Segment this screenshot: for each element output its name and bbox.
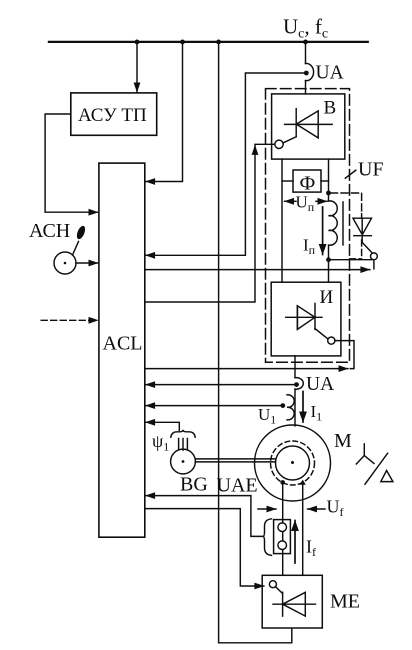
thyristor B cathode bar bbox=[295, 109, 297, 137]
node bus-UA1 bbox=[303, 40, 308, 45]
node bus-drop3 bbox=[216, 40, 221, 45]
svg-text:M: M bbox=[334, 430, 352, 452]
svg-text:ψ1: ψ1 bbox=[152, 431, 169, 454]
svg-text:UA: UA bbox=[316, 63, 344, 84]
wire ACL to I gate bbox=[145, 368, 348, 370]
bracket over BG winding bbox=[171, 430, 195, 437]
wire F right bbox=[321, 180, 329, 182]
wire ACL to B gate bbox=[145, 145, 255, 302]
node bus-ASUTP bbox=[135, 40, 140, 45]
node U1 tap bbox=[280, 403, 285, 408]
svg-text:АСН: АСН bbox=[29, 220, 70, 242]
wire I box output down bbox=[294, 356, 296, 378]
smoothing reactor coil bbox=[329, 201, 338, 260]
motor rotor circle bbox=[276, 446, 310, 480]
wire UA1 sense to ACL bbox=[146, 73, 307, 255]
wire I gate loop bbox=[335, 341, 354, 369]
wire reactor to I box bbox=[328, 260, 330, 283]
motor stator dashed circle bbox=[271, 441, 315, 485]
svg-text:UF: UF bbox=[358, 159, 384, 181]
brush node left bbox=[280, 480, 285, 485]
svg-text:If: If bbox=[306, 537, 316, 560]
box I inverter bbox=[271, 282, 341, 356]
terminal circle ME gate bbox=[269, 581, 276, 588]
wire bus drop to ACL input bbox=[146, 42, 183, 182]
brace left of terminal box bbox=[263, 519, 272, 556]
wire ACH to ACL bbox=[76, 262, 98, 264]
terminal circle I gate bbox=[328, 337, 335, 344]
thyristor ME gate lead bbox=[276, 587, 283, 594]
terminal circle B gate bbox=[275, 140, 283, 148]
knob center dot bbox=[64, 262, 67, 265]
field lead left upper bbox=[282, 482, 284, 519]
knob handle bbox=[75, 225, 87, 241]
wire UA2 sense to ACL bbox=[146, 384, 297, 386]
star-delta symbol bbox=[356, 444, 374, 464]
thyristor ME triangle bbox=[283, 592, 306, 616]
BG center dot bbox=[182, 460, 185, 463]
field lead right bbox=[302, 482, 304, 575]
thyristor switch anode bbox=[361, 214, 363, 218]
brush terminal box bbox=[274, 520, 291, 554]
box ME exciter bbox=[262, 575, 322, 628]
wire B left lead down bbox=[281, 159, 283, 282]
wire long supply drop to bottom rail and ME bbox=[219, 42, 292, 643]
thyristor switch cathode bar bbox=[354, 235, 372, 237]
svg-text:Iп: Iп bbox=[303, 236, 316, 258]
current transformer UA2 bbox=[295, 378, 303, 390]
wire B right lead down bbox=[328, 159, 330, 201]
svg-text:U1: U1 bbox=[258, 405, 276, 427]
thyristor I base bar bbox=[296, 306, 298, 330]
converter unit UF dashed box bbox=[266, 89, 350, 363]
thyristor I cathode bar bbox=[314, 303, 316, 329]
wire psi1 sensor to ACL bbox=[146, 422, 180, 430]
wire ACL to contact arrow bbox=[145, 269, 370, 271]
terminal circle lower bbox=[278, 541, 287, 550]
reactor core line bbox=[342, 202, 344, 245]
svg-text:И: И bbox=[320, 287, 334, 308]
box B rectifier bbox=[272, 94, 345, 159]
thyristor ME cathode bar bbox=[282, 592, 284, 616]
supply bus Uc,fc bbox=[49, 41, 368, 43]
wire ACL to ME gate bbox=[145, 509, 264, 586]
field lead through box bbox=[282, 520, 284, 576]
box ASU TP bbox=[71, 93, 157, 135]
current transformer UA1 bbox=[306, 63, 314, 80]
thyristor B through line bbox=[285, 123, 333, 125]
wire U1 sense to ACL bbox=[146, 405, 283, 407]
svg-text:UAE: UAE bbox=[217, 475, 258, 497]
contact blade bbox=[362, 243, 371, 253]
brush mark right bbox=[300, 480, 306, 485]
tachogenerator BG circle bbox=[171, 449, 196, 474]
thyristor I through line bbox=[286, 316, 322, 318]
node F branch bbox=[326, 191, 331, 196]
wire coil bottom to contact bbox=[329, 259, 373, 261]
node UA1 tap bbox=[304, 71, 309, 76]
label Up with arrows bbox=[285, 200, 297, 202]
BG winding lines bbox=[179, 439, 188, 451]
motor M outer circle bbox=[255, 425, 331, 501]
dashed box right segment bbox=[361, 240, 363, 259]
svg-text:ACL: ACL bbox=[103, 333, 143, 355]
thyristor I triangle bbox=[297, 306, 315, 330]
wire motor supply lead bbox=[294, 389, 296, 426]
label Uf with arrows bbox=[258, 508, 276, 510]
leader line UF bbox=[345, 170, 356, 178]
shaft coupling lines bbox=[195, 459, 275, 462]
svg-text:BG: BG bbox=[180, 474, 208, 496]
svg-text:АСУ ТП: АСУ ТП bbox=[78, 105, 147, 126]
svg-text:ME: ME bbox=[330, 591, 360, 613]
svg-text:Uп: Uп bbox=[296, 193, 315, 215]
node UA2 tap bbox=[294, 382, 299, 387]
dashed box bottom segment bbox=[350, 258, 362, 260]
terminal circle upper bbox=[278, 523, 287, 532]
dashed reference input arrow bbox=[41, 319, 98, 321]
thyristor B gate lead bbox=[283, 137, 296, 143]
wire B gate out bbox=[255, 143, 275, 145]
node bus-drop2 bbox=[180, 40, 185, 45]
box F filter bbox=[293, 170, 321, 192]
thyristor I gate lead bbox=[315, 329, 328, 340]
knob pointer bbox=[73, 242, 79, 256]
wire ASU TP to ACL bbox=[45, 114, 98, 212]
wire UA1 to B box bbox=[305, 81, 307, 94]
wire UAE sense to ACL bbox=[146, 496, 263, 537]
node coil bottom bbox=[326, 257, 331, 262]
thyristor switch triangle bbox=[353, 218, 372, 235]
dashed wire to thyristor switch bbox=[331, 193, 362, 214]
wire F left bbox=[282, 180, 293, 182]
svg-text:Ф: Ф bbox=[300, 173, 316, 195]
wire contact stub down bbox=[373, 260, 375, 269]
svg-text:Uf: Uf bbox=[327, 497, 344, 520]
wire bus to ASU TP arrow bbox=[136, 42, 138, 92]
thyristor B triangle bbox=[296, 111, 318, 138]
motor center dot bbox=[291, 461, 294, 464]
svg-text:UA: UA bbox=[306, 374, 334, 395]
svg-text:В: В bbox=[324, 98, 337, 119]
thyristor ME through line bbox=[273, 603, 316, 605]
contact terminal circle bbox=[371, 253, 378, 260]
wire bus to UA1 bbox=[305, 42, 307, 64]
box ACL bbox=[99, 163, 145, 537]
voltage sensor U1 coil bbox=[287, 395, 294, 420]
setpoint knob circle bbox=[54, 252, 76, 274]
svg-text:I1: I1 bbox=[311, 402, 323, 424]
thyristor switch interior line bbox=[361, 218, 363, 242]
svg-text:Uc, fc: Uc, fc bbox=[283, 15, 328, 42]
